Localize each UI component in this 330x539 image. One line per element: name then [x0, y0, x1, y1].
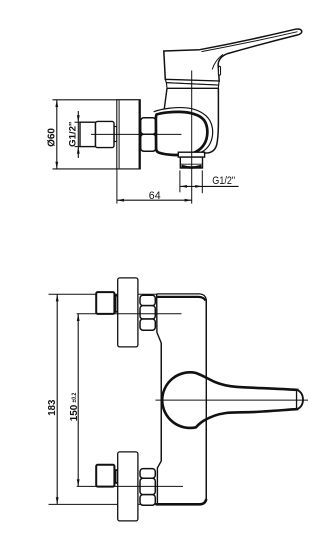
body left edge over handle [160, 343, 162, 461]
svg-text:150: 150 [68, 405, 80, 422]
extension line top (flange top / Ø60) [53, 99, 141, 101]
dimension 64 line [117, 199, 192, 201]
body column left edge [164, 88, 167, 112]
dimension 150 line [77, 314, 79, 487]
handle tip cap [296, 390, 298, 409]
handle base + lever blade (top view) [164, 29, 302, 81]
leader extension left of thread [179, 170, 181, 192]
outlet collar [178, 152, 204, 157]
arrow 150 bottom [77, 479, 80, 486]
flange inner lip line [118, 100, 120, 168]
body left edge [157, 294, 162, 504]
arrow 183 top [56, 294, 59, 301]
outlet threaded end [180, 157, 202, 168]
top collar [115, 295, 117, 312]
top union nut, three facet cells [140, 295, 155, 305]
arrow G1/2 bottom-left [180, 185, 187, 188]
stub extension G1/2 top [75, 121, 82, 123]
extension line 183 bottom [49, 503, 158, 505]
arrow 150 top [77, 314, 80, 321]
extension line 64-dim left [116, 170, 118, 204]
top wall flange [118, 278, 138, 347]
body column fill [164, 88, 219, 153]
svg-text:±0.2: ±0.2 [71, 392, 78, 402]
arrow G1/2 bottom-right [195, 185, 202, 188]
union nut (side), two facet cells [141, 118, 156, 134]
centerline vertical (top view) [191, 71, 193, 204]
svg-text:183: 183 [46, 400, 58, 416]
dimension G1/2 left line [77, 111, 79, 158]
dimension Ø60 line [56, 100, 58, 169]
body column top edge [167, 87, 218, 89]
svg-text:Ø60: Ø60 [46, 128, 58, 147]
nipple left part [80, 122, 96, 146]
arrow Ø60 top [55, 100, 58, 107]
bottom wall flange [118, 452, 138, 521]
centerline top pipe [77, 313, 182, 315]
body right edge over handle [205, 300, 207, 499]
dimension 183 line [56, 294, 58, 504]
cap band 1 [165, 79, 219, 85]
arrow 64 left [117, 199, 124, 202]
mixer body fill [157, 294, 207, 504]
centerline bottom pipe [77, 485, 183, 487]
svg-text:G1/2": G1/2" [212, 175, 235, 187]
arrow G1/2 top (outside pointing down) [77, 115, 80, 122]
body top edge [157, 294, 207, 300]
body front cap (thick egg) [156, 112, 207, 155]
bottom union nipple (thick) [96, 465, 114, 487]
svg-text:G1/2": G1/2" [68, 121, 79, 146]
handle side tick [218, 66, 220, 75]
arrow G1/2 bottom (outside pointing up) [77, 147, 80, 154]
body top seam line [157, 297, 205, 301]
bottom collar [115, 470, 117, 483]
flange front face thick edge [139, 100, 141, 168]
thread line [181, 163, 202, 165]
bottom union nut, three facet cells [140, 469, 155, 479]
arrow 64 right [185, 199, 192, 202]
body bottom thick edge [156, 499, 207, 504]
centerline handle [156, 399, 309, 401]
top union nipple (thick) [96, 292, 114, 314]
cap band 2 [166, 83, 218, 89]
blade inner line [202, 32, 298, 52]
extension line 183 top [49, 293, 157, 295]
arrow Ø60 bottom [55, 162, 58, 169]
leader extension right of thread [201, 170, 203, 193]
body right edge [205, 300, 207, 499]
handle knob + bar combined outline (front view) [162, 372, 297, 428]
body column right edge [205, 88, 218, 153]
arrow 183 bottom [56, 497, 59, 504]
svg-text:64: 64 [149, 190, 161, 202]
nipple right part [96, 121, 115, 147]
stub extension G1/2 bottom [75, 146, 82, 148]
body silhouette thin contour [154, 108, 213, 155]
centerline horizontal (top view) [91, 133, 182, 135]
thread chamfer dark band [181, 166, 201, 168]
neck crease curve [212, 54, 223, 69]
extension line bottom (flange bottom / Ø60) [53, 168, 141, 170]
wall flange (side) [117, 100, 141, 169]
collar between nipple and flange [114, 127, 117, 142]
dimension G1/2 bottom line [180, 185, 239, 187]
